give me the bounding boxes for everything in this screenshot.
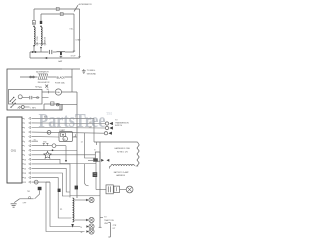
svg-text:SWITCH: SWITCH [115, 125, 123, 127]
svg-text:ZTR: ZTR [113, 225, 117, 227]
svg-text:14: 14 [24, 178, 26, 180]
svg-text:W/ ENG. 12V: W/ ENG. 12V [117, 151, 129, 153]
svg-text:5: 5 [24, 137, 25, 139]
svg-text:P1: P1 [60, 209, 62, 211]
svg-text:14: 14 [81, 141, 83, 143]
svg-text:6: 6 [24, 141, 25, 143]
svg-text:15: 15 [24, 182, 26, 184]
svg-text:10: 10 [24, 159, 26, 161]
svg-text:13: 13 [24, 173, 26, 175]
svg-text:8: 8 [24, 150, 25, 152]
svg-text:PartsTree: PartsTree [39, 111, 106, 132]
svg-text:IGN. COIL: IGN. COIL [37, 35, 39, 45]
svg-text:BLACK: BLACK [57, 77, 66, 80]
svg-text:4: 4 [24, 132, 25, 134]
svg-text:SW: SW [39, 87, 42, 89]
svg-text:TM: TM [106, 112, 112, 116]
svg-text:9: 9 [24, 155, 25, 157]
svg-text:11: 11 [24, 164, 26, 166]
svg-text:STOP: STOP [71, 56, 77, 58]
svg-text:12: 12 [24, 169, 26, 171]
svg-text:TO ENG.: TO ENG. [87, 70, 96, 72]
svg-text:3: 3 [24, 128, 25, 130]
svg-text:W: W [81, 232, 83, 234]
svg-text:2: 2 [24, 123, 25, 125]
svg-text:GROUND: GROUND [87, 73, 97, 75]
svg-text:7: 7 [24, 146, 25, 148]
svg-text:1: 1 [24, 119, 25, 121]
svg-text:KILL: KILL [70, 29, 74, 31]
